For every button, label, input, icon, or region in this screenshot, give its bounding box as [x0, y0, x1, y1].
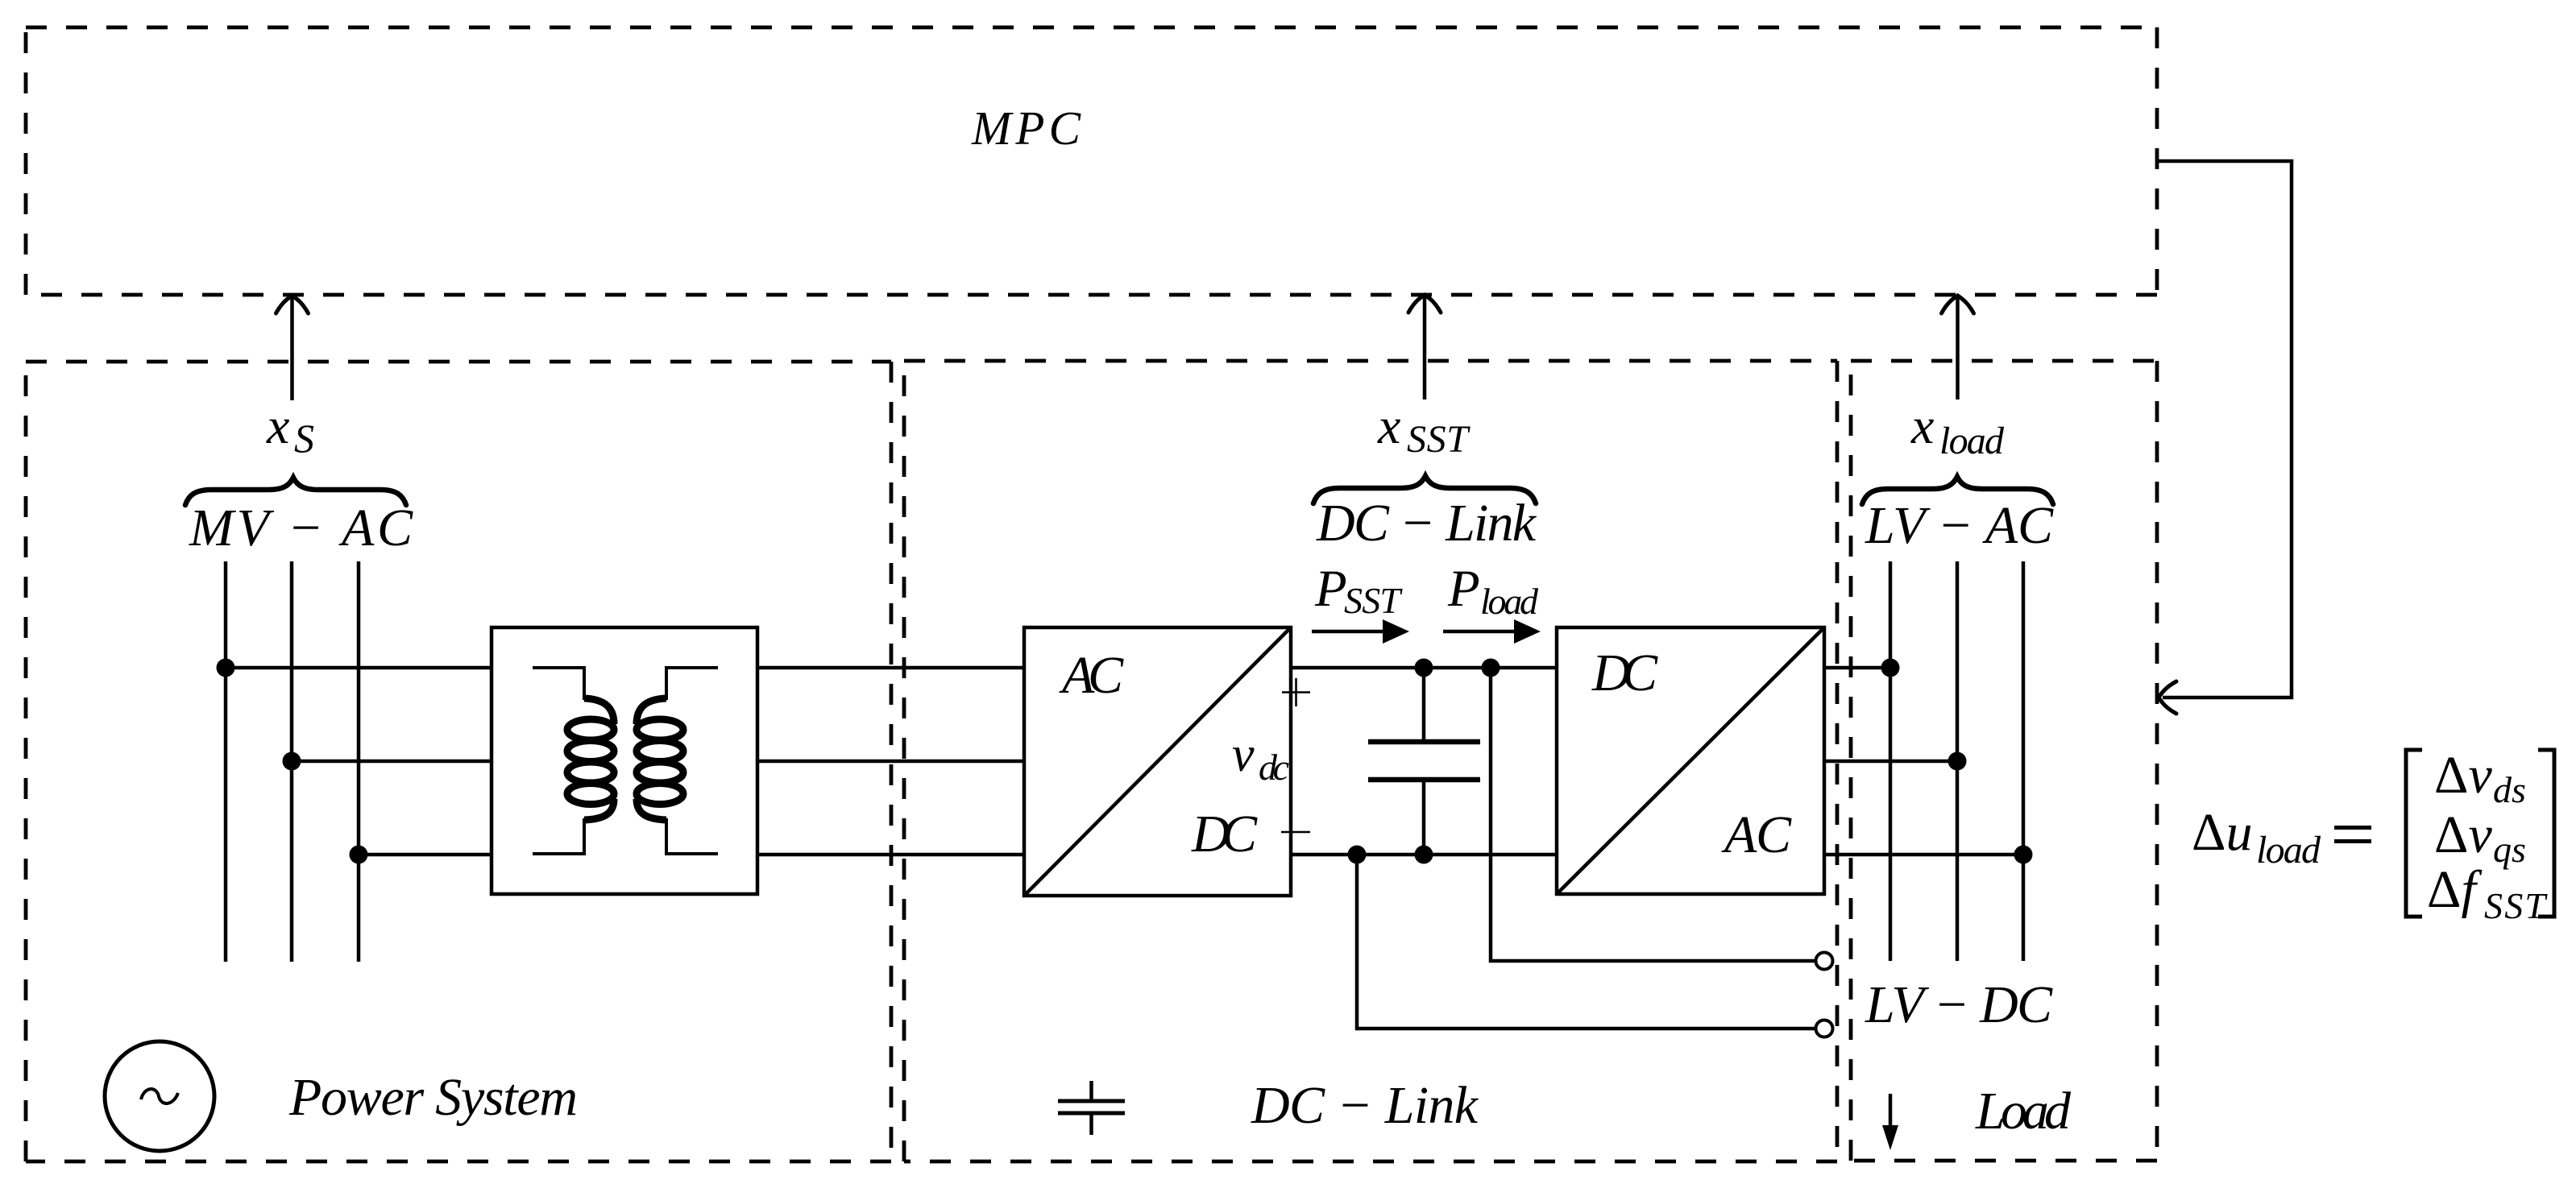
matrix row dvds — [2434, 746, 2526, 810]
LV phase line c — [2022, 561, 2026, 961]
MPC feedback wire — [2158, 161, 2292, 698]
svg-text:Δf: Δf — [2427, 860, 2482, 919]
MPC dashed box — [26, 27, 2157, 295]
svg-text:Power System: Power System — [288, 1068, 578, 1127]
junction dot b — [283, 752, 301, 771]
load down arrow — [1882, 1094, 1898, 1150]
LV phase line a — [1889, 561, 1893, 961]
LV phase line b — [1956, 561, 1960, 961]
svg-text:Δv: Δv — [2434, 805, 2492, 864]
svg-text:DC − Link: DC − Link — [1251, 1076, 1479, 1135]
label vdc — [1232, 727, 1289, 788]
svg-text:x: x — [266, 397, 289, 454]
wire transformer to AC/DC b — [757, 760, 1024, 764]
svg-text:x: x — [1910, 397, 1934, 454]
wire transformer to AC/DC c — [757, 853, 1024, 857]
junction dot LV c — [2014, 846, 2033, 864]
svg-text:SST: SST — [1407, 418, 1471, 461]
MV phase line b — [290, 561, 294, 962]
svg-text:LV − DC: LV − DC — [1865, 975, 2053, 1034]
DC-Link dashed box — [904, 361, 1837, 1161]
svg-text:load: load — [2256, 829, 2321, 871]
svg-text:P: P — [1447, 560, 1480, 618]
AC/DC converter U1 — [1024, 627, 1291, 896]
svg-text:SST: SST — [2484, 885, 2548, 926]
LV-DC positive terminal — [1816, 953, 1833, 970]
wire b to transformer — [292, 760, 492, 764]
LV-DC positive wire — [1491, 668, 1815, 961]
junction dot LV b — [1948, 752, 1967, 771]
DC/AC converter U2 — [1557, 627, 1824, 894]
svg-text:x: x — [1377, 397, 1400, 454]
label Pload — [1447, 560, 1539, 622]
svg-text:DC: DC — [1191, 805, 1258, 863]
MV phase line a — [224, 561, 228, 962]
svg-text:DC − Link: DC − Link — [1316, 494, 1537, 553]
arrow xload to MPC — [1942, 296, 1974, 399]
svg-text:AC: AC — [1059, 646, 1124, 705]
feedback arrowhead — [2159, 681, 2176, 714]
AC source G1 — [105, 1041, 214, 1151]
dc-link capacitor C1 — [1368, 668, 1480, 855]
DC+ rail — [1291, 666, 1557, 670]
junction dot a — [217, 659, 235, 677]
label delta-u-load equation — [2192, 803, 2371, 871]
label xSST — [1377, 397, 1471, 461]
DC- rail — [1291, 853, 1557, 857]
svg-text:v: v — [1232, 727, 1255, 782]
svg-text:dc: dc — [1259, 747, 1289, 788]
Pload arrow — [1443, 619, 1541, 644]
junction dot LV-DC- tap — [1348, 846, 1367, 864]
dc-link symbol capacitor — [1058, 1081, 1125, 1135]
svg-text:AC: AC — [1721, 805, 1792, 864]
minus polarity mark — [1281, 831, 1310, 834]
matrix row dvqs — [2434, 805, 2526, 870]
svg-text:Δv: Δv — [2434, 746, 2492, 805]
junction dot cap top — [1415, 659, 1433, 677]
LV wire c — [1824, 853, 2023, 857]
wire c to transformer — [359, 853, 492, 857]
label xS — [266, 397, 314, 461]
arrow xS to MPC — [276, 296, 309, 400]
brace over LV-AC — [1862, 477, 2053, 504]
svg-text:load: load — [1939, 420, 2005, 462]
arrow xSST to MPC — [1408, 295, 1441, 399]
svg-text:Load: Load — [1975, 1082, 2072, 1141]
MV phase line c — [357, 561, 361, 962]
transformer primary winding — [533, 668, 614, 854]
svg-text:DC: DC — [1591, 644, 1658, 702]
junction dot LV-DC+ tap — [1482, 659, 1500, 677]
brace over DC-Link — [1313, 476, 1536, 503]
junction dot cap bottom — [1415, 846, 1433, 864]
junction dot LV a — [1881, 659, 1900, 677]
svg-text:SST: SST — [1344, 580, 1403, 621]
LV wire a — [1824, 666, 1890, 670]
svg-text:MPC: MPC — [971, 101, 1081, 155]
label xload — [1910, 397, 2005, 462]
LV-DC negative wire — [1357, 855, 1815, 1029]
PSST arrow — [1312, 619, 1409, 644]
junction dot c — [350, 846, 368, 864]
transformer T1 box — [492, 627, 757, 894]
svg-text:MV − AC: MV − AC — [189, 499, 413, 557]
svg-text:S: S — [294, 416, 314, 461]
svg-text:Δu: Δu — [2192, 803, 2252, 862]
Power System dashed box — [26, 362, 891, 1161]
svg-text:P: P — [1314, 560, 1347, 618]
transformer secondary winding — [637, 668, 718, 854]
label PSST — [1314, 560, 1403, 621]
matrix right bracket — [2538, 750, 2554, 917]
brace over MV-AC — [185, 478, 406, 505]
LV-DC negative terminal — [1816, 1020, 1833, 1037]
svg-text:load: load — [1480, 581, 1539, 622]
plus polarity mark — [1282, 678, 1310, 706]
Load dashed box — [1851, 361, 2157, 1161]
matrix row dfSST — [2427, 860, 2548, 926]
svg-text:qs: qs — [2493, 829, 2526, 870]
svg-text:LV − AC: LV − AC — [1865, 496, 2054, 555]
LV wire b — [1824, 760, 1957, 764]
matrix left bracket — [2406, 750, 2422, 917]
wire transformer to AC/DC a — [757, 666, 1024, 670]
svg-text:ds: ds — [2493, 769, 2526, 810]
wire a to transformer — [226, 666, 492, 670]
